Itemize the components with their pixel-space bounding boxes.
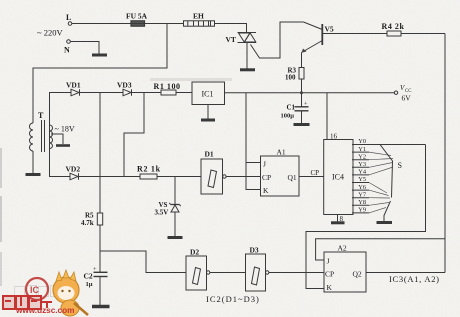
regulator IC1 [192,82,225,105]
wire emitter to R3 [301,53,303,68]
transistor V5 [302,22,334,53]
resistor R1 [154,82,181,95]
wire VD3 to R1 [132,92,161,94]
svg-text:IC4: IC4 [332,173,344,182]
wire junction to D2 [100,251,186,273]
watermark dzsc [14,283,60,299]
heater EH [184,12,215,27]
ground (triac) [240,68,255,71]
resistor R5 4.7k [81,212,103,228]
svg-text:~ 220V: ~ 220V [37,28,63,38]
output Y6 [352,184,369,191]
svg-text:~ 18V: ~ 18V [55,125,75,134]
svg-text:Y9: Y9 [358,207,366,214]
svg-text:J: J [327,257,330,266]
svg-text:Q1: Q1 [288,173,297,182]
switch S pole [380,145,402,198]
svg-text:IC3(A1, A2): IC3(A1, A2) [389,274,440,284]
svg-text:4.7k: 4.7k [81,219,94,227]
output Y9 [352,207,369,214]
terminal Vcc 6V [394,84,411,103]
zener VS 3.5V [155,177,181,237]
svg-text:VT: VT [226,35,236,44]
output Y1 [352,146,369,153]
edge smudges [0,148,2,188]
wire Vcc to pin 16 [327,93,338,141]
svg-text:L: L [66,13,71,22]
wire secondary top to rectifier row [49,125,51,148]
wire C2 to ground [99,277,101,306]
wire R2 to D1 [157,176,201,178]
right rail R4 to Q2 [444,34,446,273]
ground (C1) [294,123,310,126]
svg-text:K: K [263,186,269,195]
ground (N) [92,54,107,57]
ground (IC1) [201,119,215,122]
resistor R4 2k [382,22,405,36]
ground (C2) [92,305,110,309]
svg-text:VD2: VD2 [66,165,81,174]
svg-text:A1: A1 [277,148,286,157]
svg-text:R2 1k: R2 1k [137,165,161,174]
svg-text:100µ: 100µ [281,113,295,120]
output Y4 [352,169,369,176]
wire fuse to EH [145,23,184,25]
flip-flop A1 [261,148,300,197]
svg-text:Y5: Y5 [358,176,366,183]
wire Y0 long [369,144,426,146]
wire J feedback [316,239,445,260]
wire triac to ground [246,43,248,69]
svg-text:Y1: Y1 [358,146,366,153]
svg-text:Y0: Y0 [358,138,366,145]
svg-text:Y6: Y6 [358,184,366,191]
fuse FU 5A [126,12,148,27]
svg-text:Y7: Y7 [358,191,367,198]
svg-text:CP: CP [311,169,320,177]
svg-text:16: 16 [330,133,338,141]
output Y5 [352,176,369,183]
svg-text:FU 5A: FU 5A [126,12,148,21]
diode VD2 [66,165,81,180]
diode VD1 [66,81,81,96]
capacitor C1 100u [281,93,309,124]
svg-text:Y3: Y3 [358,161,366,168]
output Y8 [352,199,369,206]
svg-text:J: J [263,160,266,169]
output Y2 [352,153,369,160]
optocoupler D3 [246,246,269,292]
wire Vcc down to A1 J K [246,93,261,190]
svg-text:Y4: Y4 [358,169,367,176]
ground (IC4 pin8) [331,221,345,224]
wire VD3 branch jog down to R2 row [124,93,144,177]
svg-text:CP: CP [325,270,334,279]
svg-text:Q2: Q2 [353,270,362,279]
wire R4 to right rail [401,33,445,35]
ground (VS) [168,236,183,239]
wire K feedback from Y0 [306,145,426,289]
svg-text:VD3: VD3 [117,81,132,90]
svg-text:CP: CP [262,173,271,182]
diode VD3 [117,81,132,96]
svg-text:S: S [398,161,402,170]
wire D1 to A1 CP [226,176,260,178]
wire D3 to A2 CP [269,272,324,274]
node R3/C1/Vcc [300,91,303,94]
ground (center tap) [56,144,70,147]
capacitor C2 1u [84,266,108,288]
ground (switch) [377,221,393,224]
flip-flop A2 [324,244,366,293]
wire D2 to D3 [210,272,246,274]
Vcc rail [225,92,395,94]
svg-text:Y2: Y2 [358,153,366,160]
svg-text:C1: C1 [287,104,296,112]
svg-text:D1: D1 [205,150,214,159]
svg-text:+: + [304,101,308,108]
svg-text:100: 100 [285,74,296,82]
wire R1 to IC1 [176,92,192,94]
svg-text:R1 100: R1 100 [154,82,181,91]
wire EH to triac corner [215,24,247,33]
svg-text:T: T [38,111,44,120]
wire VD1 to VD3 [80,92,123,94]
counter IC4 [324,140,353,215]
wire R5 to C2 junction [99,225,101,272]
wire Q1 to IC4 CP [299,169,324,177]
output Y3 [352,161,369,168]
svg-text:VD1: VD1 [66,81,81,90]
terminal L [66,13,72,25]
wire R3 to Vcc rail [301,79,303,93]
wire A1 J [246,162,261,164]
optocoupler D1 [201,150,226,195]
wire gate to V5 collector [251,22,304,58]
output Y0 [352,138,369,145]
wire VD2 to R2 [79,176,140,178]
svg-text:D3: D3 [250,246,259,255]
wire secondary center tap [51,134,63,144]
output Y7 [352,191,369,198]
svg-text:A2: A2 [338,244,347,253]
wire N to ground [70,42,99,54]
svg-text:K: K [327,283,333,292]
wire IC1 to ground [207,105,209,120]
pin 8 to ground [338,215,344,224]
wire primary bottom to ground [32,151,34,173]
resistor R2 1k [137,165,161,180]
svg-text:R4 2k: R4 2k [382,22,405,31]
svg-text:IC2(D1~D3): IC2(D1~D3) [206,294,260,304]
terminal N [64,40,70,55]
svg-text:EH: EH [193,12,204,21]
ground (primary) [26,173,41,176]
svg-text:6V: 6V [402,94,412,103]
optocoupler D2 [186,248,210,291]
svg-text:N: N [64,46,70,55]
svg-text:V5: V5 [325,25,334,34]
wire L to fuse [72,23,131,25]
svg-text:D2: D2 [190,248,199,257]
wire top junction to transformer primary [33,24,167,124]
switch wiper [384,201,391,222]
switch contact fan [369,152,393,213]
transformer T [30,111,53,152]
wire rectifier junction rail down [99,93,101,214]
svg-text:Y8: Y8 [358,199,366,206]
wire V5 base to R4 [322,33,387,35]
wire secondary bottom to VD2 [50,148,71,177]
svg-text:IC1: IC1 [202,90,214,99]
triac VT [226,33,257,45]
wire Q2 to right rail [366,272,445,274]
svg-text:3.5V: 3.5V [155,209,169,217]
resistor R3 100 [285,67,304,82]
